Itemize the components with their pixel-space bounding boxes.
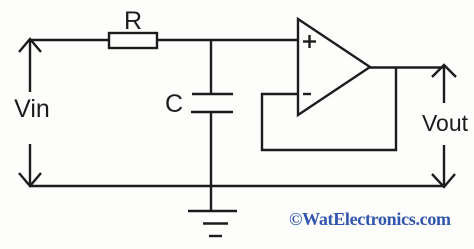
op-amp U1 minus input marker <box>303 93 311 95</box>
watermark text <box>289 209 451 229</box>
wire: bottom ground rail <box>30 185 444 187</box>
op-amp U1 plus input marker <box>303 35 316 48</box>
label R <box>124 7 142 35</box>
Vout up arrow <box>432 65 456 103</box>
Vin source down arrow <box>19 144 41 186</box>
svg-text:Vout: Vout <box>422 110 469 136</box>
svg-text:Vin: Vin <box>14 95 50 123</box>
wire: Vin top node to resistor left terminal <box>29 39 109 41</box>
wire: op-amp output to Vout node <box>370 66 444 68</box>
svg-text:C: C <box>165 90 183 118</box>
label Vout <box>422 110 469 136</box>
svg-text:©WatElectronics.com: ©WatElectronics.com <box>289 209 451 229</box>
Vin source up arrow <box>19 39 41 92</box>
resistor R <box>109 33 157 48</box>
wire: capacitor bottom plate to bottom rail <box>210 112 212 186</box>
svg-text:R: R <box>124 7 142 35</box>
wire: node A down to capacitor top plate <box>210 40 212 94</box>
Vout down arrow <box>432 145 455 187</box>
label C <box>165 90 183 118</box>
capacitor C bottom plate <box>191 111 233 113</box>
label Vin <box>14 95 50 123</box>
wire: resistor right terminal to op-amp + input (through node A) <box>157 39 298 41</box>
op-amp U1 <box>298 19 370 115</box>
capacitor C top plate <box>192 93 233 95</box>
wire: feedback loop from output node down and around to - input <box>262 68 396 151</box>
ground <box>188 186 237 236</box>
